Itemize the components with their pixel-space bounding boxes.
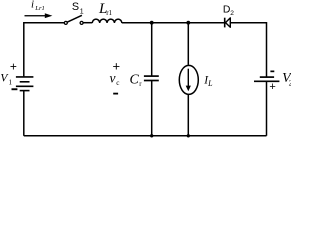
svg-text:Lr1: Lr1 <box>34 5 45 12</box>
svg-text:2: 2 <box>230 10 234 17</box>
wire diode to top-right corner down to V2 <box>231 23 267 77</box>
junction node bottom C <box>150 134 153 137</box>
junction node top C <box>150 21 154 25</box>
capacitor Cr branch top wire <box>151 23 153 76</box>
current source IL branch top wire <box>187 23 189 65</box>
current arrow iLr1 <box>25 13 53 18</box>
wire inductor to diode <box>122 22 224 24</box>
svg-text:L: L <box>207 79 213 88</box>
svg-text:S: S <box>72 1 79 13</box>
wire switch to inductor <box>83 22 92 24</box>
junction node top IL <box>186 21 190 25</box>
svg-text:1: 1 <box>8 78 12 87</box>
battery V1 <box>16 77 34 91</box>
capacitor Cr bottom wire <box>151 81 153 136</box>
current source IL bottom wire <box>187 95 189 136</box>
wire V2 to bottom-right corner <box>266 81 268 136</box>
svg-text:C: C <box>130 73 140 88</box>
svg-text:v: v <box>110 71 116 86</box>
bottom wire <box>24 135 267 137</box>
current source IL <box>179 65 198 94</box>
svg-text:2: 2 <box>289 79 291 88</box>
battery V2 <box>254 77 279 81</box>
svg-text:r: r <box>139 81 142 88</box>
svg-text:+: + <box>269 81 275 93</box>
svg-text:r1: r1 <box>106 9 112 17</box>
svg-text:c: c <box>116 79 119 87</box>
current source arrow <box>186 69 191 92</box>
capacitor Cr <box>144 76 159 80</box>
svg-text:1: 1 <box>80 9 84 16</box>
diode D2 <box>225 18 231 28</box>
wire top-left horizontal segment <box>24 23 64 77</box>
label V2 with polarity <box>270 71 274 73</box>
junction node bottom IL <box>187 134 190 137</box>
inductor Lr1 <box>92 19 122 23</box>
svg-text:i: i <box>31 0 34 11</box>
switch S1 <box>64 15 83 24</box>
wire V1 to bottom <box>23 91 25 136</box>
svg-text:+: + <box>10 60 17 74</box>
